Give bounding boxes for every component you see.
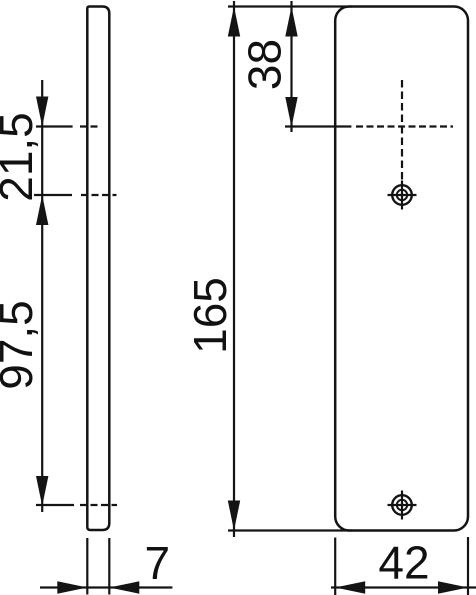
- svg-text:97,5: 97,5: [0, 300, 42, 390]
- side view plate outline: [87, 7, 109, 531]
- tick y=505: [36, 504, 74, 506]
- arrow 97,5 bottom (down): [36, 476, 48, 506]
- screw hole H2 cross: [388, 504, 417, 506]
- arrow 38 bottom (down): [285, 97, 297, 127]
- tick y=126.5: [36, 125, 73, 127]
- tick 38 y=126.5 solid part: [285, 125, 351, 127]
- vertical dashed centerline x=402: [401, 80, 403, 185]
- 42 dim extension lines: [334, 538, 336, 595]
- arrow 165 bottom (down): [228, 501, 240, 531]
- tick y=195: [34, 194, 72, 196]
- dimension line 21,5 / 97,5: [41, 80, 43, 512]
- screw hole H1 outer circle: [392, 185, 412, 205]
- dashed hole line through side plate y=195: [81, 194, 117, 196]
- screw hole H2 inner circle: [397, 500, 407, 510]
- svg-text:7: 7: [145, 537, 171, 589]
- svg-text:21,5: 21,5: [0, 112, 42, 202]
- dashed ref line through side plate y=126.5: [80, 125, 101, 127]
- screw hole H2 outer circle: [392, 495, 412, 515]
- 7 dim extension lines: [86, 538, 88, 595]
- dashed ref line across front plate y=126.5: [356, 125, 453, 127]
- arrow 42 left (left-pointing): [335, 581, 365, 593]
- screw hole H1 inner circle: [397, 190, 407, 200]
- 7 dimension line: [40, 586, 172, 588]
- dashed hole line through side plate y=505: [80, 504, 117, 506]
- arrow 42 right (right-pointing): [438, 581, 468, 593]
- arrow 38 top (up): [285, 7, 297, 37]
- bottom extension line y=530.5: [228, 529, 352, 531]
- screw hole H1 cross: [388, 194, 417, 196]
- arrow 165 top (up): [228, 7, 240, 37]
- 42 dimension line: [331, 586, 476, 588]
- svg-text:38: 38: [239, 39, 291, 90]
- arrow 21,5 top (down): [36, 97, 48, 127]
- dimension line 38: [290, 1, 292, 132]
- svg-text:165: 165: [184, 277, 236, 354]
- top extension line y=6.5: [228, 5, 352, 7]
- arrow 7 left (right-pointing): [57, 581, 87, 593]
- svg-text:42: 42: [378, 537, 429, 589]
- arrow 7 right (left-pointing): [109, 581, 139, 593]
- front view plate outline: [335, 7, 468, 531]
- dimension line 165: [233, 1, 235, 537]
- arrow 21,5 bottom / 97,5 top (up): [36, 195, 48, 225]
